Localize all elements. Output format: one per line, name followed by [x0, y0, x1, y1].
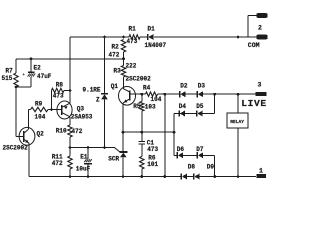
resistor R7 [14, 73, 18, 87]
svg-text:515: 515 [2, 75, 13, 82]
svg-text:R9: R9 [35, 101, 43, 108]
wire D3 to LIVE terminal [203, 93, 256, 95]
node ground-R4riser [163, 175, 166, 178]
svg-text:D9: D9 [207, 164, 215, 171]
wire SCR cathode lead [122, 132, 124, 152]
wire D6 row left riser [173, 132, 175, 155]
wire top rail right segment to COM [154, 36, 257, 38]
wire R5 top lead [141, 94, 143, 101]
svg-text:10uF: 10uF [76, 166, 91, 173]
wire E1 top lead [87, 148, 89, 160]
wire relay top lead [237, 94, 239, 113]
wire ground rail right [199, 176, 256, 178]
wire D2-D3 [185, 93, 197, 95]
svg-text:E2: E2 [34, 65, 42, 72]
terminal 2 [257, 13, 268, 18]
svg-text:D3: D3 [198, 83, 206, 90]
svg-text:R8: R8 [56, 82, 64, 89]
svg-text:47uF: 47uF [37, 73, 52, 80]
svg-text:2SA953: 2SA953 [71, 114, 93, 121]
svg-text:101: 101 [147, 161, 158, 168]
node diode row junction [163, 93, 166, 96]
node R7 bottom junction [15, 86, 18, 89]
svg-text:2SC2002: 2SC2002 [126, 76, 152, 83]
svg-text:2: 2 [258, 24, 262, 31]
svg-text:473: 473 [127, 38, 138, 45]
zener diode Z 9.1RE [101, 93, 108, 95]
wire E2 top rail [16, 58, 124, 60]
transistor Q1 2SC2002 [119, 87, 136, 106]
resistor R4 [146, 92, 158, 96]
svg-text:R3: R3 [114, 68, 122, 75]
wire D7 to riser [203, 154, 215, 156]
wire R11/E1 top rail [70, 147, 105, 149]
wire R8 right lead [64, 90, 70, 92]
wire D5 to riser [202, 113, 214, 115]
transistor Q2 2SC2002 [19, 127, 35, 145]
svg-text:R4: R4 [143, 85, 151, 92]
wire SCR anode rail [123, 131, 174, 133]
SCR [120, 151, 128, 153]
svg-text:1N4007: 1N4007 [145, 42, 167, 49]
svg-text:COM: COM [248, 42, 260, 49]
wire D4-D5 [185, 113, 197, 115]
svg-text:D5: D5 [196, 103, 204, 110]
terminal COM [257, 35, 268, 40]
terminal 1 [257, 174, 267, 178]
svg-text:D7: D7 [196, 146, 204, 153]
wire C5 to R6 [141, 145, 143, 157]
svg-text:D8: D8 [188, 164, 196, 171]
resistor R10 [68, 125, 72, 137]
resistor R6 [140, 157, 144, 170]
svg-text:E1: E1 [80, 154, 88, 161]
wire R3 to Q1 collector [123, 77, 125, 89]
svg-text:9.1RE: 9.1RE [83, 87, 101, 94]
capacitor C1 473 [139, 141, 146, 142]
transistor Q3 2SA953 [57, 101, 72, 119]
diode D9 [193, 173, 195, 179]
terminal 3 [256, 92, 267, 96]
diode D7 [196, 152, 198, 158]
svg-text:R10: R10 [56, 128, 67, 135]
node ground-SCR [122, 175, 125, 178]
wire relay bottom lead [237, 128, 239, 176]
svg-text:103: 103 [145, 103, 156, 110]
wire C5 top lead [141, 132, 143, 141]
svg-text:104: 104 [151, 96, 162, 103]
wire E2 bottom lead [30, 77, 32, 87]
node ground-R11 [69, 175, 72, 178]
wire terminal-2 stub [248, 15, 257, 17]
svg-text:472: 472 [109, 52, 120, 59]
wire R11 top lead [69, 148, 71, 157]
node rail-relay junction [237, 36, 240, 39]
node diode riser [173, 131, 176, 134]
wire Q2 emitter to ground rail [28, 143, 30, 176]
wire zener bottom to gate node [104, 99, 106, 147]
resistor R9 [31, 107, 48, 111]
node E1 top [87, 146, 90, 149]
node rail-R2 junction [122, 36, 125, 39]
wire E1 bottom lead [87, 164, 89, 176]
SCR gate wire [105, 148, 120, 152]
svg-text:D4: D4 [179, 103, 187, 110]
wire Q2 base riser [15, 87, 17, 137]
wire D8-D9 [187, 176, 194, 178]
svg-text:473: 473 [53, 93, 64, 100]
capacitor E1 10uF [84, 159, 86, 162]
node Q1 emitter-SCR [122, 131, 125, 134]
svg-text:472: 472 [52, 160, 63, 167]
node D3-D5 junction [213, 93, 216, 96]
wire Q3 collector to R10 [69, 117, 71, 125]
node ground-R6 [140, 175, 143, 178]
wire zener top [104, 37, 106, 93]
node R10-R11 junction [69, 146, 72, 149]
wire ground rail left [29, 176, 181, 178]
wire SCR anode to ground rail [122, 157, 124, 176]
svg-text:3: 3 [258, 81, 262, 88]
resistor R8 [52, 88, 65, 92]
svg-text:Q3: Q3 [77, 106, 85, 113]
resistor R11 [68, 156, 72, 169]
resistor R2 [121, 40, 125, 53]
node R8-base junction [50, 108, 53, 111]
wire D4 row left riser [173, 114, 175, 133]
svg-text:D1: D1 [148, 26, 156, 33]
svg-text:R5: R5 [133, 103, 141, 110]
resistor R1 [129, 35, 140, 39]
wire terminal-2 riser [247, 16, 249, 38]
wire D6-D7 [183, 154, 197, 156]
svg-text:R1: R1 [129, 26, 137, 33]
wire R4 to diode row [158, 93, 165, 95]
wire R2-R3 [123, 52, 125, 66]
wire D5 row right riser [214, 94, 216, 113]
wire D7 row to ground rail [214, 155, 216, 176]
node gate junction [103, 146, 106, 149]
svg-text:2SC2002: 2SC2002 [3, 145, 29, 152]
svg-text:R7: R7 [6, 68, 14, 75]
node ground-D7riser [213, 175, 216, 178]
diode D1 [147, 34, 149, 40]
svg-text:473: 473 [147, 146, 158, 153]
wire R6 to ground rail [141, 169, 143, 177]
svg-text:472: 472 [72, 128, 83, 135]
svg-text:1: 1 [259, 167, 263, 174]
wire R7-E2 bottom [16, 86, 31, 88]
svg-text:Q1: Q1 [111, 83, 119, 90]
node C5 top [140, 131, 143, 134]
wire R11 bottom lead [69, 169, 71, 177]
svg-text:D2: D2 [180, 83, 188, 90]
svg-text:Q2: Q2 [37, 131, 45, 138]
node rail-zener junction [103, 36, 106, 39]
node R2-R3 junction [122, 57, 125, 60]
relay box [227, 113, 248, 128]
wire R4 node to ground rail [164, 94, 166, 176]
svg-text:RELAY: RELAY [230, 119, 244, 125]
svg-text:D6: D6 [177, 146, 185, 153]
diode D6 [176, 152, 178, 158]
diode D5 [196, 110, 198, 116]
svg-text:Z: Z [96, 97, 100, 104]
wire R8 left drop [51, 91, 53, 110]
node E2 top [30, 57, 33, 60]
resistor R5 [140, 102, 144, 112]
node relay junction [237, 93, 240, 96]
node ground-E1 [87, 175, 90, 178]
node ground-relay [237, 175, 240, 178]
wire top rail R1-D1 segment [140, 36, 147, 38]
wire Q2 collector riser [28, 110, 30, 130]
node R8-emitter junction [69, 89, 72, 92]
svg-text:222: 222 [126, 63, 137, 70]
capacitor E2 47uF [28, 72, 34, 73]
wire R10 to node [69, 137, 71, 148]
svg-text:SCR: SCR [108, 156, 119, 163]
svg-text:+: + [22, 73, 25, 78]
wire Q1 emitter drop [122, 103, 124, 132]
svg-text:R2: R2 [112, 44, 120, 51]
wire top rail left segment [70, 36, 129, 38]
wire Q3 emitter to rail [69, 37, 71, 103]
svg-text:104: 104 [35, 114, 46, 121]
diode D4 [178, 110, 180, 116]
diode D2 [179, 91, 181, 97]
resistor R3 [121, 66, 125, 78]
node R4-R5 junction [140, 93, 143, 96]
wire E2 top lead [30, 59, 32, 72]
diode D8 [180, 173, 182, 179]
wire R7 top lead [15, 59, 17, 73]
diode D3 [196, 91, 198, 97]
wire R5 bottom lead [141, 111, 143, 132]
svg-text:LIVE: LIVE [241, 98, 266, 109]
